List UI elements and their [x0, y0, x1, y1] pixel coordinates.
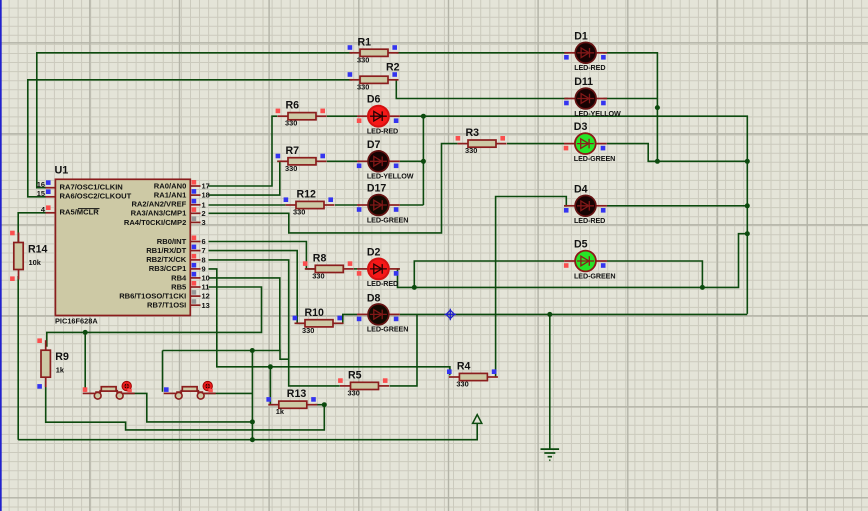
svg-text:RB4: RB4 [171, 273, 187, 282]
svg-text:330: 330 [465, 146, 477, 155]
wire button1 left drop [84, 332, 86, 391]
svg-text:LED-RED: LED-RED [574, 216, 605, 225]
U1 pin 7 [190, 245, 205, 256]
junction at 252.3,350.5 [250, 348, 255, 353]
resistor R3 330 [456, 127, 507, 155]
svg-text:LED-YELLOW: LED-YELLOW [574, 109, 621, 118]
wire D4 cathode to right bus [607, 205, 748, 207]
svg-text:11: 11 [202, 283, 210, 292]
wire R1 right to D1 anode [397, 52, 569, 54]
resistor R12 330 [284, 189, 335, 217]
U1 pin 16 [37, 180, 56, 189]
wire R9 bottom to rail A [46, 381, 325, 430]
U1 pin 12 [190, 290, 209, 301]
svg-text:LED-YELLOW: LED-YELLOW [367, 172, 414, 181]
svg-text:RB5: RB5 [171, 282, 187, 291]
junction at 702.4,287.4 [700, 285, 705, 290]
LED D5 LED-GREEN (lit) [564, 239, 616, 281]
svg-text:13: 13 [202, 301, 210, 310]
resistor R10 330 [293, 307, 344, 335]
svg-text:RA0/AN0: RA0/AN0 [154, 181, 187, 190]
U1 pin 1 [190, 199, 205, 210]
resistor R1 330 [348, 36, 399, 64]
junction at 324.3,404.7 [322, 402, 327, 407]
svg-text:7: 7 [202, 246, 206, 255]
svg-text:R8: R8 [313, 252, 327, 264]
wire U1 pin6 to R8 left [209, 242, 316, 269]
wire R12 right to D17 anode [335, 204, 357, 206]
wire D5 cathode drop [607, 261, 703, 287]
svg-text:RA2/AN2/VREF: RA2/AN2/VREF [131, 200, 186, 209]
junction at 747.3,233.7 [745, 231, 750, 236]
LED D8 LED-GREEN (off) [357, 293, 409, 334]
svg-text:D2: D2 [367, 246, 381, 258]
push button SW2 [164, 381, 216, 399]
svg-text:LED-GREEN: LED-GREEN [574, 271, 615, 280]
wire U1 pin9 down and across to R4 left [209, 269, 451, 375]
wire U1 pin18 to R7 left [209, 161, 280, 195]
resistor R13 1k [266, 388, 317, 416]
LED D6 LED-RED (lit) [357, 94, 400, 136]
svg-text:330: 330 [285, 164, 297, 173]
U1 pin 9 [190, 263, 205, 274]
svg-text:LED-GREEN: LED-GREEN [367, 215, 408, 224]
LED D2 LED-RED (lit) [357, 246, 400, 288]
svg-text:RB6/T1OSO/T1CKI: RB6/T1OSO/T1CKI [119, 292, 186, 301]
svg-text:15: 15 [37, 189, 45, 198]
junction at 252.4,439.7 [250, 437, 255, 442]
wire power rail B [18, 424, 477, 440]
wire button1 right to rail [123, 393, 253, 422]
wire U1 pin2 to R3 left [209, 144, 458, 233]
svg-text:R2: R2 [386, 61, 400, 73]
svg-text:D1: D1 [574, 30, 588, 42]
wire D1/D11 bus join segment [648, 160, 657, 162]
U1 pin 10 [190, 272, 209, 283]
wire button2 left drop [162, 351, 164, 392]
wire R6 right to D6 anode [327, 115, 357, 117]
U1 pin 11 [190, 281, 209, 292]
svg-text:1k: 1k [276, 407, 285, 416]
svg-text:R9: R9 [55, 351, 69, 363]
svg-text:PIC16F628A: PIC16F628A [55, 317, 98, 326]
LED D1 LED-RED (off) [564, 30, 607, 72]
svg-text:D3: D3 [574, 121, 588, 133]
junction at 657.4,161.3 [655, 159, 660, 164]
wire D6 cathode along row to right bus top [400, 116, 748, 314]
wire D11 cathode to right bus [603, 98, 657, 100]
U1 pin 4 [41, 205, 56, 214]
wire U1 pin1 to R12 left [209, 204, 286, 206]
svg-text:RB7/T1OSI: RB7/T1OSI [147, 301, 186, 310]
wire R5 right up to ground rail [390, 314, 418, 386]
svg-text:LED-GREEN: LED-GREEN [574, 154, 615, 163]
svg-text:R4: R4 [457, 361, 471, 373]
svg-text:RB1/RX/DT: RB1/RX/DT [146, 246, 186, 255]
U1 pin 3 [190, 216, 205, 227]
wire U1 pin8 down to jog [209, 260, 289, 359]
svg-text:RA4/T0CKI/CMP2: RA4/T0CKI/CMP2 [124, 218, 186, 227]
wire R1 left to U1 pin16 (RA7/OSC1) [37, 53, 352, 188]
svg-text:R5: R5 [348, 369, 362, 381]
wire D2 cathode down to common row [398, 234, 748, 288]
junction at 657.4,107.6 [655, 105, 660, 110]
svg-text:D11: D11 [574, 76, 593, 88]
svg-text:RB0/INT: RB0/INT [157, 237, 187, 246]
svg-text:U1: U1 [55, 165, 69, 177]
wire R13 left riser to pin9 net [269, 367, 271, 405]
wire node D6/D7/D17 vertical link [422, 116, 424, 205]
wire R3 right to D3 anode [507, 143, 564, 145]
U1 pin 18 [190, 189, 209, 200]
LED D4 LED-RED (off) [564, 183, 607, 225]
wire D3 cathode to right bus [607, 144, 748, 162]
wire U1 pin17 to R6 left [209, 116, 278, 186]
wire D5 anode feed [414, 261, 564, 287]
svg-text:3: 3 [202, 218, 206, 227]
svg-text:330: 330 [456, 380, 468, 389]
U1 pin 15 [37, 189, 56, 198]
wire button2 left riser / net-a to R5 [163, 351, 340, 386]
svg-text:LED-RED: LED-RED [574, 63, 605, 72]
junction at 270.4,366.8 [268, 364, 273, 369]
LED D7 LED-YELLOW (off) [357, 139, 414, 181]
svg-text:16: 16 [37, 180, 45, 189]
junction at 747.3,205.8 [745, 203, 750, 208]
sheet border [0, 0, 2, 511]
wire R4 right feed up to D4 row [496, 197, 567, 378]
svg-text:330: 330 [285, 119, 297, 128]
svg-text:330: 330 [312, 271, 324, 280]
ground [541, 449, 560, 460]
svg-text:R13: R13 [287, 388, 307, 400]
U1 pin 17 [190, 180, 209, 191]
svg-text:330: 330 [302, 326, 314, 335]
LED D3 LED-GREEN (lit) [564, 121, 616, 163]
svg-text:10: 10 [202, 274, 210, 283]
svg-text:D7: D7 [367, 139, 381, 151]
wire D17 cathode to vertical link [400, 204, 424, 206]
svg-text:RA3/AN3/CMP1: RA3/AN3/CMP1 [131, 209, 187, 218]
wire R13 right to rail A junction [316, 404, 325, 406]
resistor R6 330 [276, 100, 327, 128]
svg-text:RA1/AN1: RA1/AN1 [154, 191, 187, 200]
svg-text:9: 9 [202, 265, 206, 274]
U1 pin 8 [190, 254, 205, 265]
junction at 85.2,332.4 [83, 330, 88, 335]
svg-text:D4: D4 [574, 183, 588, 195]
microcontroller U1 PIC16F628A [55, 165, 191, 326]
wire R14 bottom to power rail B [17, 276, 19, 440]
svg-text:R14: R14 [28, 244, 48, 256]
wire R10 right jog up to D8 anode [333, 314, 357, 323]
svg-text:R1: R1 [358, 36, 372, 48]
svg-text:D6: D6 [367, 94, 381, 106]
origin marker [445, 309, 457, 321]
svg-text:R6: R6 [286, 100, 300, 112]
svg-text:330: 330 [348, 388, 360, 397]
wire U1 pin10 down to button net [209, 278, 280, 351]
wire button2 right to rail [204, 392, 253, 394]
junction at 414.3,287.4 [412, 285, 417, 290]
resistor R2 330 [348, 61, 400, 91]
junction at 747.3,161.3 [745, 159, 750, 164]
svg-text:D17: D17 [367, 183, 387, 195]
wire D1 cathode to right bus [603, 53, 657, 162]
U1 pin 2 [190, 207, 205, 218]
svg-text:LED-RED: LED-RED [367, 279, 398, 288]
svg-text:6: 6 [202, 237, 206, 246]
svg-text:R10: R10 [305, 307, 325, 319]
svg-text:12: 12 [202, 292, 210, 301]
resistor R8 330 [303, 252, 354, 280]
svg-text:LED-GREEN: LED-GREEN [367, 325, 408, 334]
svg-text:330: 330 [357, 55, 369, 64]
svg-text:RA6/OSC2/CLKOUT: RA6/OSC2/CLKOUT [60, 192, 132, 201]
wire D7 cathode to vertical link [400, 160, 424, 162]
svg-text:18: 18 [202, 191, 210, 200]
wire R2 left to U1 pin15 (RA6/OSC2) [28, 80, 352, 197]
U1 pin 6 [190, 236, 205, 247]
wire U1 pin4 MCLR to R14 and bottom rail [18, 213, 45, 244]
svg-text:330: 330 [357, 82, 369, 91]
svg-text:8: 8 [202, 256, 206, 265]
svg-text:D8: D8 [367, 293, 381, 305]
svg-text:R12: R12 [297, 189, 317, 201]
svg-text:RB3/CCP1: RB3/CCP1 [149, 264, 187, 273]
LED D11 LED-YELLOW (off) [564, 76, 621, 118]
wire ground drop [549, 314, 551, 449]
resistor R5 330 [338, 369, 389, 397]
wire R8 right to D2 anode [354, 268, 357, 270]
svg-text:RB2/TX/CK: RB2/TX/CK [146, 255, 187, 264]
resistor R4 330 [447, 361, 498, 389]
junction at 549.8,314.4 [547, 312, 552, 317]
svg-text:R7: R7 [286, 145, 300, 157]
svg-text:R3: R3 [466, 127, 480, 139]
svg-text:2: 2 [202, 209, 206, 218]
svg-text:LED-RED: LED-RED [367, 127, 398, 136]
wire buttons common drop [251, 351, 253, 440]
push button SW1 [83, 381, 135, 399]
svg-text:RA7/OSC1/CLKIN: RA7/OSC1/CLKIN [60, 183, 123, 192]
U1 pin 13 [190, 299, 209, 310]
svg-text:10k: 10k [29, 258, 42, 267]
power terminal [473, 415, 482, 424]
LED D17 LED-GREEN (off) [357, 183, 409, 225]
wire U1 pin11 to R9 top rail [47, 287, 262, 347]
svg-text:330: 330 [293, 208, 305, 217]
junction at 423.4,161.3 [421, 159, 426, 164]
wire ground rail D8 row [400, 313, 748, 315]
wire U1 pin7 to R10 left [209, 251, 305, 324]
junction at 423.4,116.2 [421, 114, 426, 119]
wire R7 right to D7 anode [327, 160, 357, 162]
resistor R7 330 [276, 145, 327, 173]
resistor R9 1k (vertical) [37, 338, 69, 388]
wire R2 right to D11 anode [396, 80, 568, 99]
svg-text:1k: 1k [56, 365, 65, 374]
svg-text:17: 17 [202, 182, 210, 191]
junction at 252.4,421.9 [250, 419, 255, 424]
svg-text:D5: D5 [574, 239, 588, 251]
resistor R14 10k (vertical) [10, 231, 47, 281]
